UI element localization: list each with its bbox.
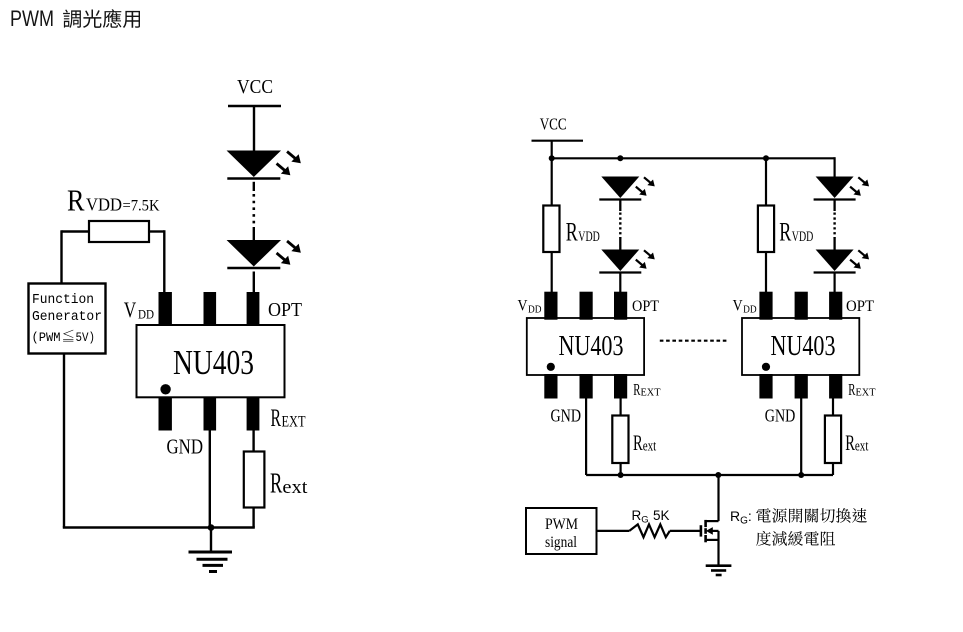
wire rail to RVDD2	[765, 158, 767, 205]
title CJK glyphs 調光應用	[63, 9, 140, 28]
wire to LED2 anode (solid)	[253, 227, 255, 241]
svg-text:R: R	[270, 469, 283, 500]
transistor Q1 N-MOSFET	[701, 520, 719, 542]
wire RG to MOSFET gate	[670, 530, 701, 532]
wire REXT (U3) to Rext2	[832, 398, 834, 416]
svg-text:DD: DD	[138, 308, 154, 322]
annotation CJK line 1 電源開關切換速	[756, 508, 867, 523]
wire VCC to LED1 anode	[253, 106, 255, 152]
svg-text:ext: ext	[855, 439, 869, 455]
wire LED chain 2 to OPT pin (U3)	[833, 273, 835, 296]
LED D5 (chain 2 top)	[814, 177, 869, 200]
ground symbol (left)	[189, 551, 233, 554]
svg-text:ext: ext	[282, 477, 308, 498]
svg-text:R: R	[271, 405, 282, 432]
svg-text:R: R	[845, 430, 855, 455]
svg-text:RG:: RG:	[730, 508, 752, 527]
svg-text:=7.5K: =7.5K	[123, 198, 160, 215]
IC U3 NU403 body	[742, 318, 859, 375]
svg-text:PWM: PWM	[545, 516, 578, 533]
VCC terminal bar (right)	[532, 140, 584, 142]
wire resistor RVDD left lead	[62, 230, 90, 232]
svg-text:Function: Function	[32, 293, 94, 308]
wire dotted (chain 2)	[833, 201, 835, 212]
LED D6 (chain 2 bottom)	[814, 250, 869, 273]
junction dot rail/RVDD2	[763, 155, 769, 161]
svg-text:NU403: NU403	[771, 331, 836, 362]
pin OPT (U3, top-right)	[829, 292, 842, 320]
wire source to ground	[717, 531, 719, 566]
wire GND (U2) to bottom rail	[585, 398, 587, 475]
wire VCC to top rail	[551, 141, 553, 159]
svg-text:ext: ext	[643, 439, 657, 455]
svg-text:NU403: NU403	[173, 343, 254, 382]
pin REXT (U3, bottom-right)	[829, 374, 842, 399]
svg-text:R: R	[848, 380, 855, 399]
svg-text:DD: DD	[743, 303, 757, 315]
svg-text:VDD: VDD	[792, 229, 814, 245]
resistor RVDD (1st, vertical body)	[543, 206, 559, 253]
top supply rail	[552, 157, 835, 159]
LED D2 (left chain)	[227, 240, 301, 268]
pin OPT (U2, top-right)	[614, 292, 627, 320]
junction dot at ground node (left)	[208, 524, 215, 531]
function generator box	[29, 284, 106, 354]
wire RVDD1 to VDD pin (U2)	[551, 252, 553, 295]
svg-text:R: R	[633, 430, 643, 455]
resistor Rext (2nd, vertical body)	[825, 416, 841, 464]
wire Rext2 to bottom rail	[832, 463, 834, 475]
pin NC (U3, top-middle)	[795, 292, 808, 320]
pin GND (U1, bottom-middle)	[204, 397, 217, 431]
pin OPT (U1, top-right)	[247, 292, 260, 326]
PWM signal source box	[526, 508, 597, 554]
svg-text:EXT: EXT	[641, 386, 661, 398]
resistor RVDD (left, horizontal body)	[89, 221, 149, 242]
resistor Rext (left, vertical body)	[244, 452, 265, 508]
pin REXT (U2, bottom-right)	[614, 374, 627, 399]
svg-text:GND: GND	[167, 435, 204, 459]
svg-text:(PWM: (PWM	[32, 330, 61, 345]
svg-text:5K: 5K	[653, 508, 670, 523]
wire GND (U1) to ground rail	[209, 430, 211, 528]
svg-text:OPT: OPT	[268, 300, 302, 321]
function generator glyph ≦	[63, 330, 73, 342]
junction dot rail/GND (U3)	[798, 472, 804, 478]
svg-text:GND: GND	[551, 406, 582, 426]
svg-text:V: V	[124, 297, 137, 322]
wire dotted (chain 1)	[619, 201, 621, 212]
IC U1 NU403 body	[137, 325, 285, 397]
svg-text:signal: signal	[545, 534, 577, 551]
svg-text:V: V	[733, 298, 744, 315]
wire drain to bottom rail	[717, 475, 719, 521]
svg-text:NU403: NU403	[559, 331, 624, 362]
svg-text:PWM: PWM	[10, 6, 54, 31]
pin REXT (U1, bottom-right)	[247, 397, 260, 431]
svg-text:OPT: OPT	[632, 298, 659, 315]
resistor Rext (1st, vertical body)	[612, 416, 628, 464]
wire dotted (LED chain continuation, left)	[253, 194, 256, 226]
junction dot rail/LED chain 1	[617, 155, 623, 161]
svg-text:R: R	[779, 218, 791, 247]
dotted continuation between U2 and U3	[660, 340, 729, 342]
svg-text:GND: GND	[765, 406, 796, 426]
wire RVDD2 to VDD pin (U3)	[765, 252, 767, 295]
wire REXT (U2) to Rext1	[619, 398, 621, 416]
wire PWM box to resistor RG	[597, 530, 630, 532]
svg-text:V: V	[518, 298, 529, 315]
svg-text:R: R	[566, 218, 578, 247]
svg-text:VCC: VCC	[237, 76, 273, 98]
pin GND (U2, bottom-middle)	[580, 374, 593, 399]
ground symbol (MOSFET source)	[706, 564, 732, 567]
svg-text:VDD: VDD	[578, 229, 600, 245]
LED D4 (chain 1 bottom)	[599, 250, 654, 273]
IC U2 NU403 body	[527, 318, 644, 375]
junction dot rail/VCC	[549, 155, 555, 161]
wire rail to RVDD1	[551, 158, 553, 205]
svg-text:OPT: OPT	[846, 298, 874, 315]
junction dot rail/MOSFET drain	[715, 472, 721, 478]
svg-text:EXT: EXT	[282, 414, 306, 431]
wire LED chain 1 to OPT pin (U2)	[619, 273, 621, 296]
wire Rext1 to bottom rail	[619, 463, 621, 475]
svg-text:VDD: VDD	[86, 195, 122, 215]
IC U2 pin-1 index dot	[547, 363, 555, 371]
LED D3 (chain 1 top)	[599, 177, 654, 200]
IC U3 pin-1 index dot	[762, 363, 770, 371]
svg-text:RG: RG	[632, 508, 649, 526]
pin GND pad (U1, bottom-left)	[159, 397, 172, 431]
wire LED2 cathode to OPT pin	[253, 272, 255, 296]
pin VDD (U3, top-left)	[759, 292, 772, 320]
wire GND (U3) to bottom rail	[800, 398, 802, 475]
pin GND (U3, bottom-middle)	[795, 374, 808, 399]
svg-text:R: R	[633, 380, 640, 399]
pin VDD (U2, top-left)	[544, 292, 557, 320]
pin NC (U2, top-middle)	[580, 292, 593, 320]
svg-text:5V): 5V)	[76, 330, 96, 345]
resistor RVDD (2nd, vertical body)	[758, 206, 774, 253]
IC U1 pin-1 index dot	[160, 384, 170, 394]
junction dot rail/Rext1	[618, 472, 624, 478]
svg-text:DD: DD	[528, 303, 542, 315]
wire LED1 cathode (solid)	[253, 182, 255, 191]
pin GND pad (U3, bottom-left)	[759, 374, 772, 399]
pin VDD (U1, top-left)	[159, 292, 172, 326]
bottom common rail (sources/grounds)	[586, 474, 833, 476]
wire REXT (U1) to resistor Rext	[252, 430, 254, 452]
svg-text:EXT: EXT	[856, 386, 876, 398]
svg-text:VCC: VCC	[540, 115, 567, 134]
pin NC (U1, top-middle)	[204, 292, 217, 326]
resistor RG (zigzag)	[629, 524, 670, 537]
annotation CJK line 2 度減緩電阻	[756, 531, 835, 546]
wire Rext bottom to ground rail	[252, 508, 254, 528]
wire function generator output (bottom) to ground rail	[63, 354, 65, 528]
svg-text:Generator: Generator	[32, 310, 102, 325]
pin GND pad (U2, bottom-left)	[544, 374, 557, 399]
wire resistor RVDD right lead	[149, 230, 164, 232]
VCC terminal bar (left)	[228, 105, 281, 107]
svg-text:R: R	[67, 183, 85, 218]
LED D1 (left chain)	[227, 151, 301, 179]
